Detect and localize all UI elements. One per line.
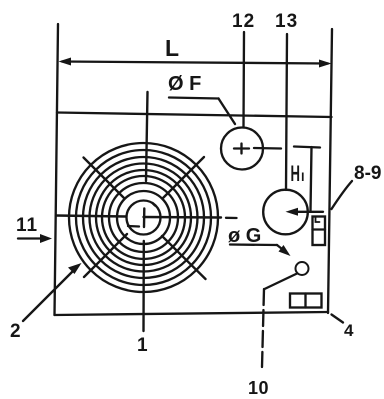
- label 4: [344, 321, 354, 340]
- svg-text:Ø F: Ø F: [168, 73, 201, 95]
- label 13: [275, 11, 298, 32]
- leader line 4: [332, 315, 344, 323]
- leader line 10 diagonal: [265, 274, 298, 290]
- left extension line / panel left edge: [55, 24, 59, 315]
- fan diagonal spoke SE: [162, 236, 206, 279]
- leader arrow 2: [23, 263, 82, 321]
- leader line 10 dashed: [262, 289, 264, 367]
- svg-text:11: 11: [16, 215, 38, 236]
- hole G circle: [296, 262, 309, 275]
- leader arrow G: [230, 245, 291, 257]
- svg-text:13: 13: [275, 11, 298, 32]
- label 2: [10, 321, 21, 342]
- dimension line L: [59, 58, 332, 68]
- label 11: [16, 215, 38, 236]
- connector block 8-9: [313, 217, 326, 246]
- fan diagonal spoke NW: [84, 158, 125, 199]
- fan diagonal spoke NE: [163, 157, 204, 198]
- hole 12 circle: [221, 128, 263, 170]
- fan diagonal spoke SW: [84, 234, 127, 277]
- label 12: [232, 11, 255, 32]
- hole 13 arrow: [286, 208, 324, 216]
- svg-text:1: 1: [137, 335, 148, 356]
- label 8-9: [354, 163, 381, 184]
- svg-text:10: 10: [248, 378, 269, 398]
- leader line 8-9: [332, 181, 353, 209]
- fan horizontal centerline: [56, 216, 237, 219]
- connector block 4: [290, 294, 322, 308]
- leader line 13: [286, 34, 287, 190]
- hole 13 circle: [263, 190, 308, 235]
- right extension line / panel right edge: [328, 29, 332, 313]
- panel bottom edge: [55, 312, 329, 315]
- fan vertical centerline: [144, 92, 148, 331]
- svg-text:L: L: [165, 35, 179, 61]
- panel top edge: [57, 113, 332, 118]
- fan grille rings (element 1): [69, 143, 218, 292]
- hole 12 centerline dash: [254, 147, 281, 150]
- leader line 12: [242, 32, 245, 127]
- svg-text:12: 12: [232, 11, 255, 32]
- label 10: [248, 378, 269, 398]
- label 1: [137, 335, 148, 356]
- arrow 11: [18, 234, 52, 243]
- svg-text:ı: ı: [301, 168, 305, 185]
- svg-text:4: 4: [344, 321, 354, 340]
- dimension label F: [168, 73, 201, 95]
- svg-text:H: H: [291, 161, 301, 186]
- fan center mark: [128, 203, 155, 227]
- label phi G: [228, 225, 261, 247]
- label H1: [291, 161, 305, 186]
- svg-text:8-9: 8-9: [354, 163, 381, 184]
- svg-text:2: 2: [10, 321, 21, 342]
- label L: [165, 35, 179, 61]
- leader line F: [169, 98, 235, 125]
- dimension H1 tick: [294, 147, 320, 148]
- hole 12 center cross: [234, 144, 249, 154]
- dimension H1 line: [311, 147, 312, 211]
